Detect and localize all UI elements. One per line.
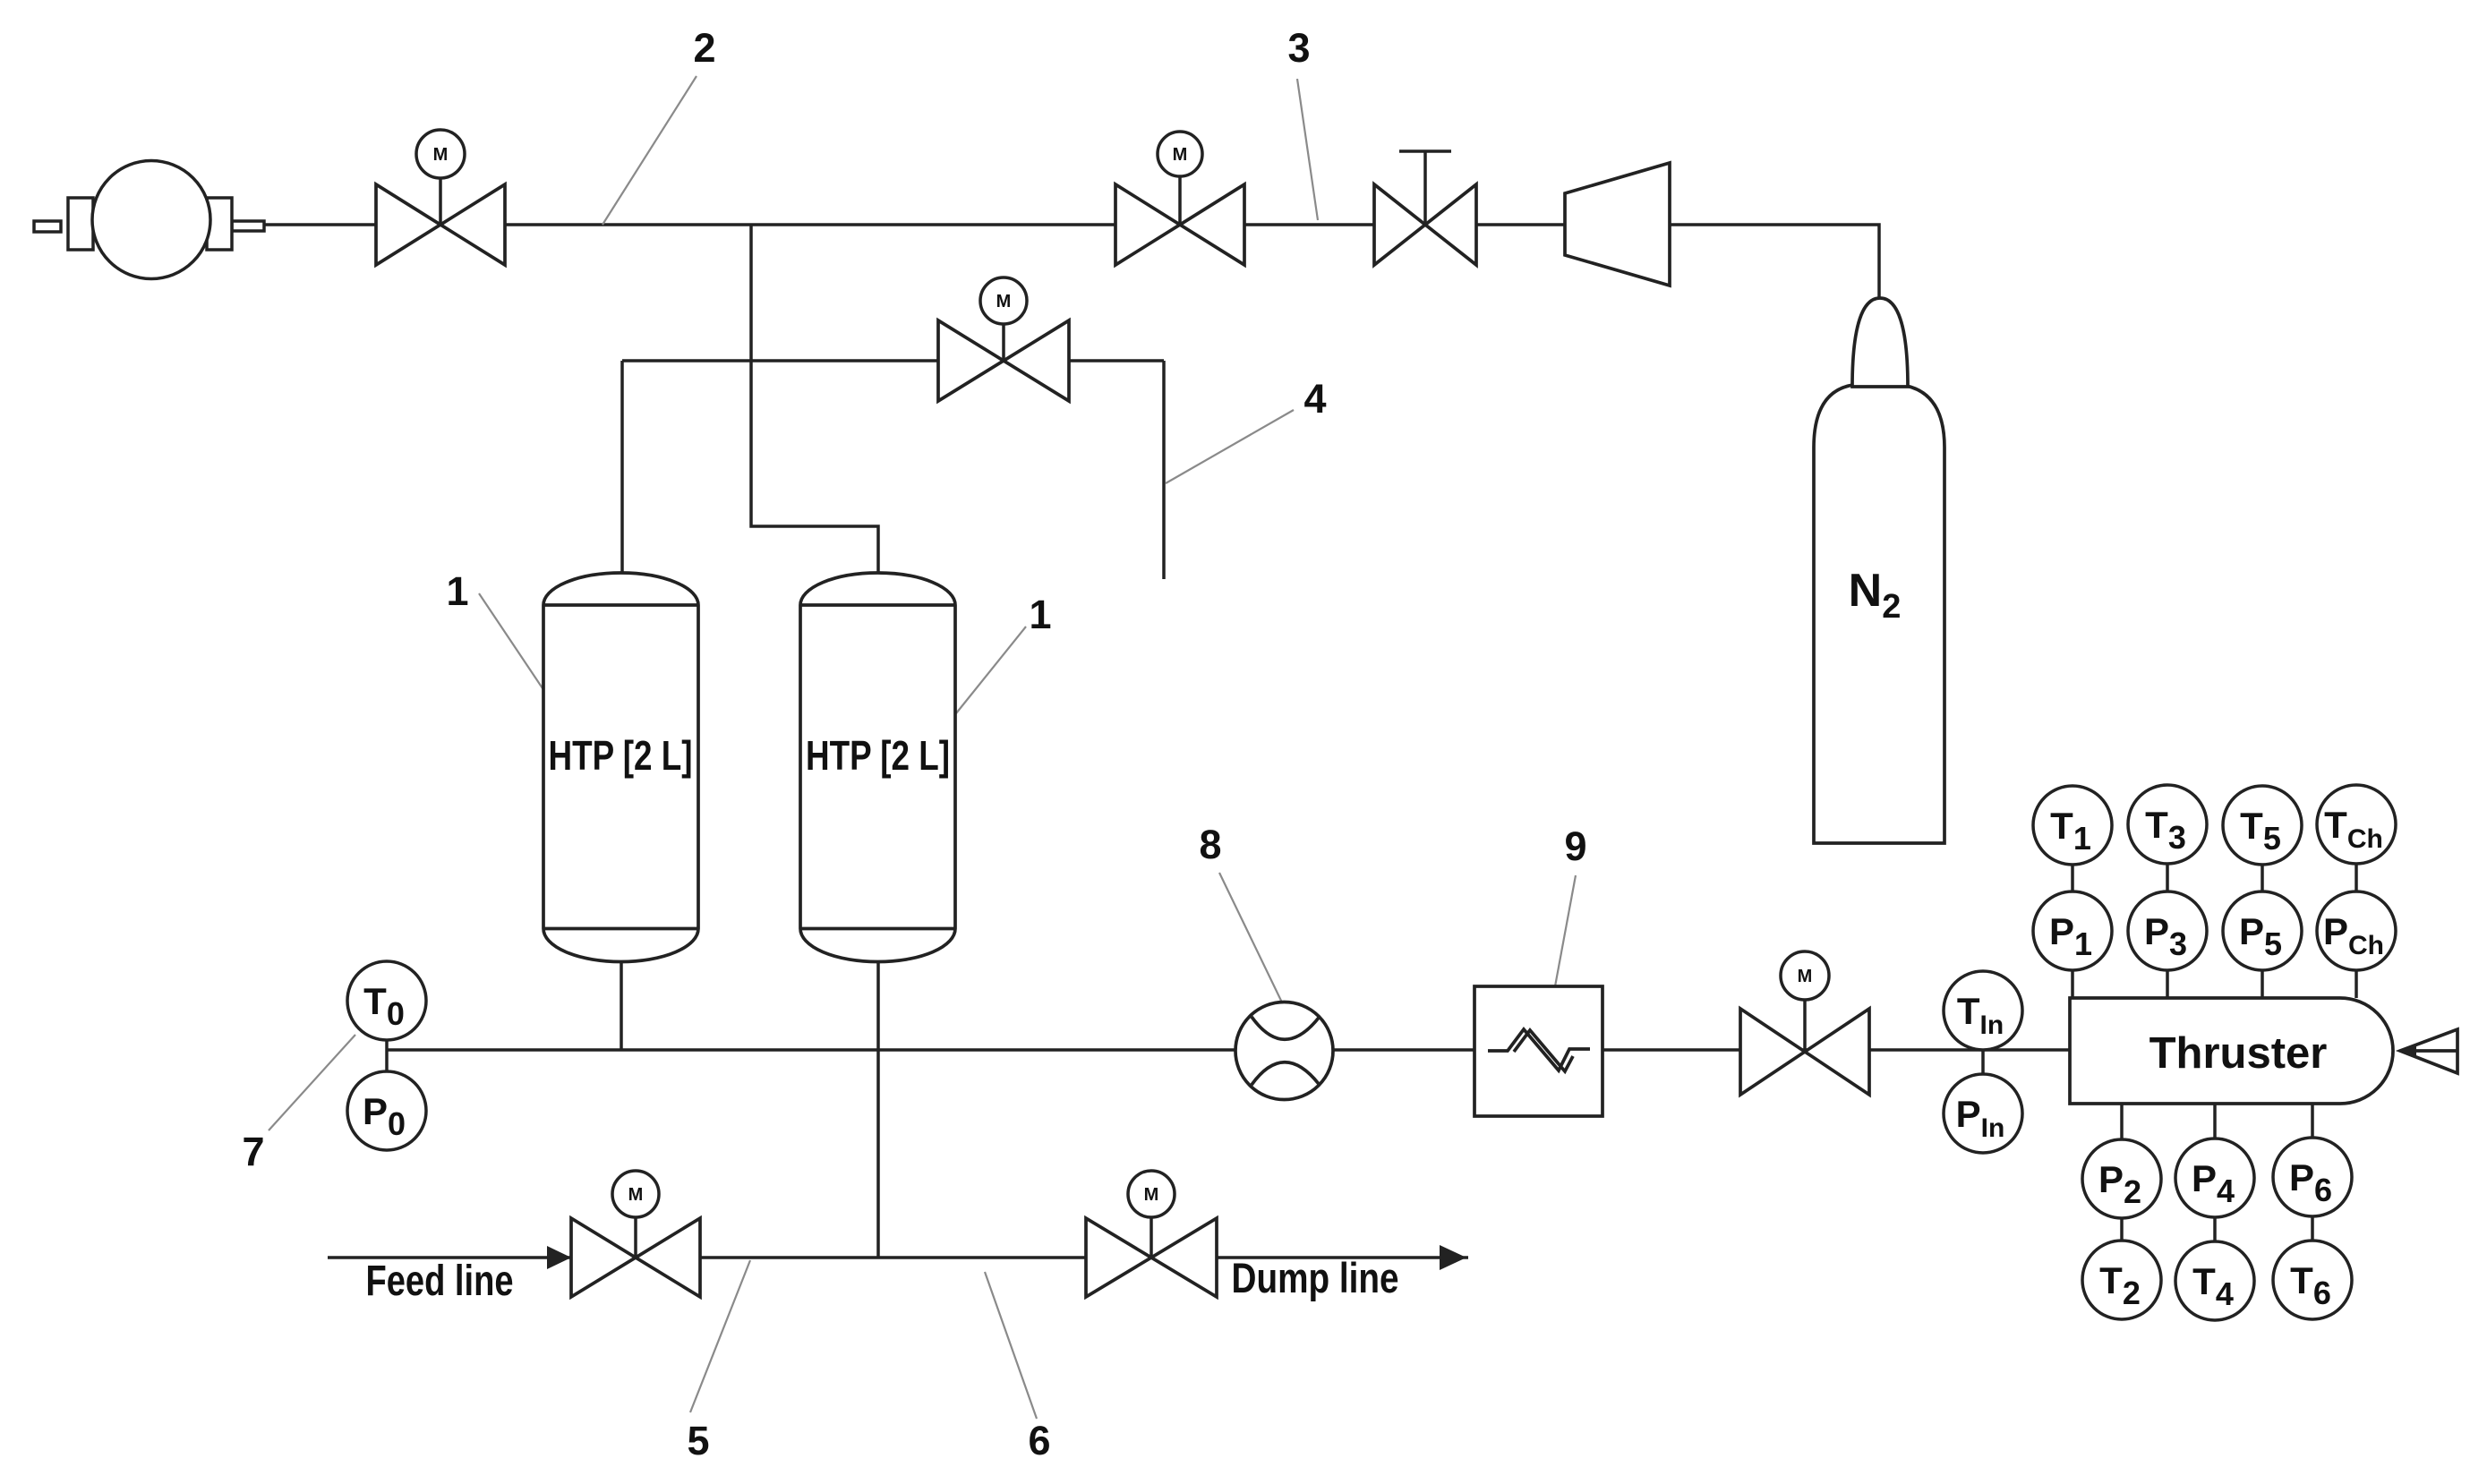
svg-text:M: M <box>1798 967 1813 986</box>
svg-text:M: M <box>1144 1185 1159 1205</box>
svg-text:Feed line: Feed line <box>366 1258 514 1305</box>
svg-text:8: 8 <box>1199 822 1221 867</box>
svg-text:3: 3 <box>1287 25 1310 71</box>
svg-text:HTP [2 L]: HTP [2 L] <box>806 732 950 779</box>
svg-text:Thruster: Thruster <box>2149 1029 2328 1078</box>
svg-text:6: 6 <box>1028 1418 1050 1463</box>
svg-text:5: 5 <box>687 1418 709 1463</box>
svg-text:M: M <box>1173 145 1188 165</box>
svg-text:7: 7 <box>242 1129 264 1174</box>
svg-text:HTP [2 L]: HTP [2 L] <box>549 732 693 779</box>
svg-text:9: 9 <box>1564 823 1586 869</box>
svg-text:Dump line: Dump line <box>1232 1254 1399 1301</box>
svg-text:M: M <box>996 292 1012 311</box>
svg-text:1: 1 <box>1029 592 1051 637</box>
svg-text:4: 4 <box>1303 376 1326 422</box>
svg-text:1: 1 <box>446 568 468 614</box>
svg-text:M: M <box>628 1185 644 1205</box>
svg-text:M: M <box>433 145 449 165</box>
svg-text:2: 2 <box>693 25 715 71</box>
